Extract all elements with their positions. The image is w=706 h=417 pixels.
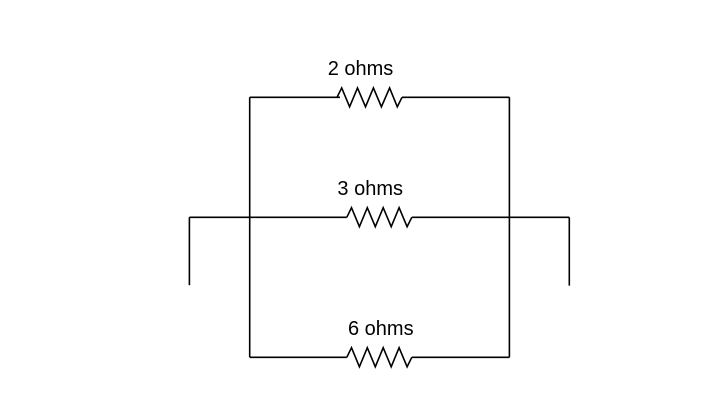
wire top-left (node A to R1)	[250, 96, 340, 98]
wire bottom-right (R3 to node B)	[412, 356, 510, 358]
svg-text:6 ohms: 6 ohms	[348, 318, 414, 340]
resistor R1	[337, 88, 402, 107]
left terminal lead	[188, 217, 190, 285]
wire right vertical (node B branch)	[508, 97, 510, 357]
resistor R2	[347, 208, 412, 227]
wire middle-left (left terminal to R2)	[189, 216, 346, 218]
svg-text:2 ohms: 2 ohms	[328, 58, 394, 80]
wire top-right (R1 to node B)	[402, 96, 509, 98]
right terminal lead	[568, 217, 570, 285]
wire left vertical (node A branch)	[249, 97, 251, 357]
resistor R3	[347, 348, 412, 367]
wire bottom-left (node A to R3)	[250, 356, 347, 358]
svg-text:3 ohms: 3 ohms	[337, 178, 403, 200]
wire middle-right (R2 to right terminal)	[412, 216, 570, 218]
